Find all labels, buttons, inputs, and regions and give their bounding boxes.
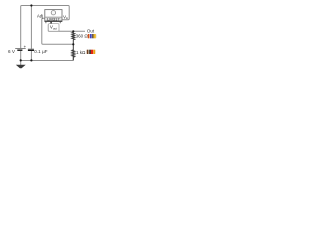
svg-text:360 Ω: 360 Ω [76, 33, 89, 38]
svg-text:1 kΩ: 1 kΩ [76, 50, 86, 55]
svg-text:Out: Out [87, 29, 95, 34]
svg-text:0.1 µF: 0.1 µF [34, 49, 48, 54]
svg-text:LM317: LM317 [47, 17, 60, 22]
svg-text:Vin: Vin [63, 14, 68, 20]
svg-text:Vout: Vout [50, 25, 57, 31]
svg-text:Adj: Adj [37, 13, 43, 18]
svg-text:6 V: 6 V [8, 49, 16, 54]
